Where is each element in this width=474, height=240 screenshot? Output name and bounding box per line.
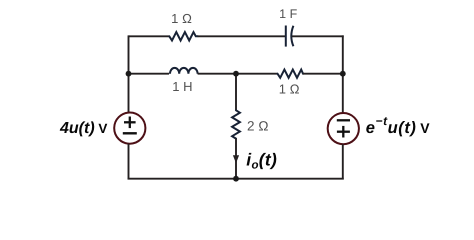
wire row2 left (left rail to L1)	[129, 73, 170, 75]
node right (row2)	[340, 71, 346, 77]
svg-text:1 H: 1 H	[172, 79, 192, 94]
wire left rail lower	[128, 144, 130, 180]
svg-text:1 Ω: 1 Ω	[279, 82, 300, 97]
wire middle branch lower (R3 to bottom node)	[235, 139, 237, 179]
label 1 H	[172, 79, 192, 94]
capacitor 1 F	[286, 26, 294, 47]
wire top left (node to R1)	[129, 35, 170, 37]
wire row2 right (R2 to right rail)	[303, 73, 343, 75]
current arrow io	[233, 155, 239, 163]
label 1 F	[279, 7, 297, 21]
svg-text:1 Ω: 1 Ω	[171, 11, 192, 26]
resistor 1 Ohm row2	[278, 70, 304, 78]
wire top middle (R1 to C1)	[198, 35, 286, 37]
resistor 1 Ohm top	[169, 32, 198, 40]
label 1 Ohm row2	[279, 82, 300, 97]
wire right rail lower	[342, 144, 344, 179]
voltage source Vs2 e^-t u(t)	[328, 113, 359, 144]
svg-text:io(t): io(t)	[246, 150, 277, 172]
wire bottom	[128, 178, 344, 180]
inductor 1 H	[170, 68, 198, 74]
svg-text:2 Ω: 2 Ω	[247, 119, 269, 134]
wire top right (C1 to right rail)	[292, 35, 344, 37]
node left (row2)	[126, 71, 132, 77]
node bottom middle	[233, 176, 239, 182]
resistor 2 Ohm	[232, 110, 240, 138]
wire left rail upper	[128, 35, 130, 112]
voltage source Vs1 4u(t)	[114, 113, 145, 144]
wire right rail upper	[342, 35, 344, 113]
node B (row2 middle)	[233, 71, 239, 77]
wire middle branch upper (node B to R3)	[235, 74, 237, 111]
label 2 Ohm	[247, 119, 269, 134]
wire row2 middle (L1 to node B)	[198, 73, 278, 75]
label 1 Ohm top	[171, 11, 192, 26]
svg-text:1 F: 1 F	[279, 7, 297, 21]
label 4u(t) V	[59, 120, 107, 137]
svg-text:e−tu(t) V: e−tu(t) V	[366, 114, 430, 137]
svg-text:4u(t) V: 4u(t) V	[59, 120, 107, 137]
label io(t)	[246, 150, 277, 172]
label e^-t u(t) V	[366, 114, 430, 137]
